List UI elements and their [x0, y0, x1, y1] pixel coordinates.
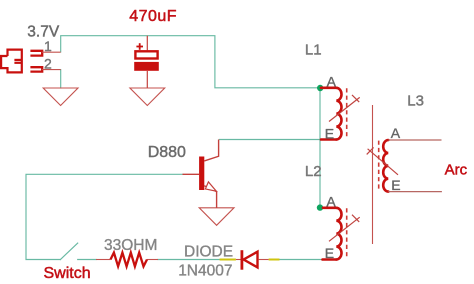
svg-text:33OHM: 33OHM — [104, 237, 157, 254]
svg-text:L2: L2 — [305, 163, 322, 180]
svg-text:1N4007: 1N4007 — [178, 263, 232, 280]
svg-text:E: E — [391, 177, 400, 193]
svg-text:Arc: Arc — [445, 161, 468, 178]
svg-text:A: A — [391, 125, 401, 141]
svg-text:L3: L3 — [407, 93, 424, 110]
svg-text:A: A — [326, 193, 336, 209]
svg-text:L1: L1 — [305, 41, 322, 58]
svg-text:E: E — [325, 125, 334, 141]
svg-text:470uF: 470uF — [129, 8, 177, 25]
svg-text:E: E — [325, 245, 334, 261]
svg-text:1: 1 — [44, 38, 52, 54]
svg-text:2: 2 — [44, 56, 52, 72]
svg-text:A: A — [327, 73, 337, 89]
svg-text:Switch: Switch — [44, 265, 91, 282]
svg-text:D880: D880 — [148, 144, 186, 161]
svg-text:DIODE: DIODE — [184, 243, 233, 260]
